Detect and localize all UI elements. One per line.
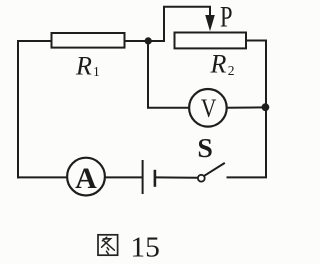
svg-text:R: R	[75, 52, 92, 81]
node A (junction dot left)	[145, 37, 152, 44]
svg-text:15: 15	[130, 232, 160, 264]
slider arrow P (wiper)	[205, 15, 215, 31]
voltmeter V	[189, 89, 227, 127]
switch S pivot	[198, 175, 205, 182]
node B (junction dot right)	[262, 103, 270, 111]
wire node down to voltmeter left	[148, 41, 189, 108]
svg-text:A: A	[75, 162, 97, 195]
wire left rail and top-left segment	[18, 41, 52, 177]
svg-text:1: 1	[93, 64, 100, 79]
switch S lever	[204, 163, 225, 176]
svg-text:S: S	[197, 133, 213, 163]
battery cell: short negative plate	[154, 170, 157, 187]
svg-text:P: P	[220, 0, 233, 33]
resistor R1	[52, 33, 125, 48]
caption glyph 图 (hand drawn)	[98, 235, 118, 255]
rheostat R2	[175, 33, 247, 49]
svg-text:R: R	[210, 50, 227, 79]
battery cell: long positive plate	[142, 160, 144, 194]
svg-text:V: V	[201, 94, 217, 123]
wire battery to switch	[157, 176, 198, 178]
wire ammeter to battery	[105, 176, 141, 178]
wire R1 right to node	[125, 40, 147, 42]
wire voltmeter right to right node	[227, 106, 266, 108]
svg-text:2: 2	[228, 63, 235, 78]
ammeter A	[67, 158, 105, 196]
wire R2 right end to right rail down to bottom	[228, 41, 267, 178]
wire node to slider arm (up and over)	[148, 7, 210, 41]
wire bottom left to ammeter	[18, 176, 67, 178]
